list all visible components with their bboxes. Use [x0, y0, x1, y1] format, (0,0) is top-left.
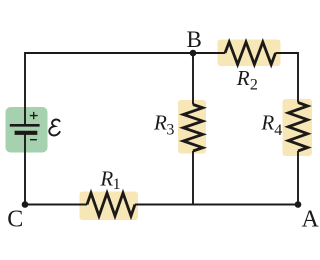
resistor R3 zigzag [183, 105, 203, 152]
svg-text:R: R [236, 66, 250, 90]
resistor R1 zigzag [87, 193, 135, 216]
battery minus sign [30, 139, 37, 141]
resistor R2 highlight box [218, 40, 281, 67]
node B [190, 50, 197, 57]
svg-text:B: B [187, 27, 202, 52]
battery top plate (long, +) [10, 124, 40, 127]
svg-text:3: 3 [166, 122, 174, 139]
battery plus sign [30, 112, 38, 119]
node A [295, 201, 302, 208]
svg-text:C: C [7, 207, 23, 233]
resistor R4 highlight box [283, 99, 313, 156]
EMF script-E symbol [49, 120, 59, 136]
wire left vertical (to battery) [24, 52, 26, 205]
resistor R4 zigzag [288, 103, 307, 152]
svg-text:R: R [153, 111, 167, 135]
node C [22, 201, 29, 208]
svg-text:2: 2 [250, 77, 258, 94]
resistor R1 highlight box [80, 192, 139, 221]
svg-text:1: 1 [113, 176, 121, 193]
wire top: corner to B to R2 [25, 52, 298, 54]
resistor R2 zigzag [225, 42, 276, 65]
wire bottom: C to A [25, 204, 298, 206]
battery bottom plate (short, thick, -) [15, 131, 38, 135]
wire middle vertical: B to R3 to bottom [192, 53, 194, 205]
svg-text:R: R [99, 167, 113, 191]
svg-text:A: A [302, 207, 320, 233]
battery highlight box [6, 107, 48, 153]
resistor R3 highlight box [178, 100, 206, 154]
wire right vertical: corner to R4 to A [297, 52, 299, 205]
svg-text:R: R [260, 111, 274, 135]
svg-text:4: 4 [274, 122, 282, 139]
